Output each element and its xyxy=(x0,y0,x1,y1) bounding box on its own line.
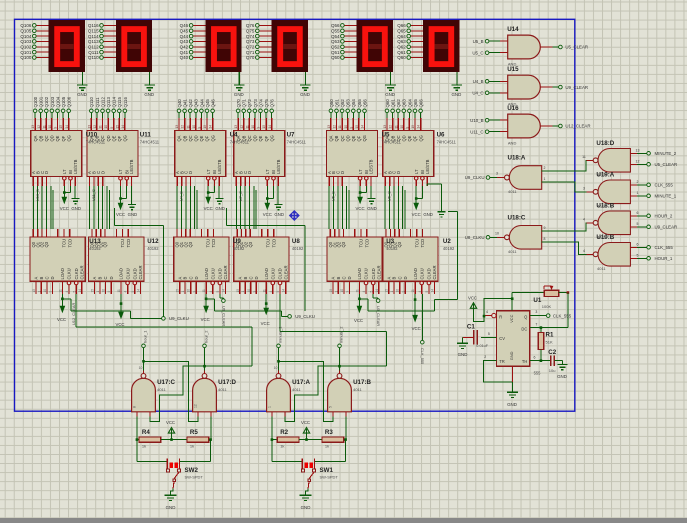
svg-text:U19:B: U19:B xyxy=(596,234,614,241)
svg-text:Q112: Q112 xyxy=(88,45,99,50)
svg-text:10: 10 xyxy=(48,125,52,129)
svg-text:GND: GND xyxy=(128,212,138,217)
svg-text:Q45: Q45 xyxy=(180,29,189,34)
svg-text:U3: U3 xyxy=(386,238,394,245)
svg-text:Q110: Q110 xyxy=(89,97,94,108)
svg-text:14: 14 xyxy=(431,289,435,293)
svg-text:4011: 4011 xyxy=(353,387,362,392)
svg-text:12: 12 xyxy=(389,125,393,129)
svg-text:hour_1: hour_1 xyxy=(143,330,148,343)
terminal U11_C xyxy=(470,129,507,134)
svg-text:10: 10 xyxy=(344,125,348,129)
svg-text:9: 9 xyxy=(406,127,410,129)
output pin U18:D xyxy=(582,155,593,161)
svg-text:Q40: Q40 xyxy=(177,99,182,108)
svg-text:DC: DC xyxy=(521,326,527,331)
svg-text:U4_B: U4_B xyxy=(179,191,184,201)
wire bus U13 to terminal U9_CLKU xyxy=(62,299,161,319)
svg-text:10: 10 xyxy=(247,289,251,293)
svg-text:15: 15 xyxy=(32,289,36,293)
svg-text:12: 12 xyxy=(193,404,197,408)
svg-text:15: 15 xyxy=(91,289,95,293)
svg-text:GND: GND xyxy=(507,402,517,407)
svg-text:GND: GND xyxy=(166,505,176,510)
svg-text:Q114: Q114 xyxy=(88,34,99,39)
svg-text:74HC4511: 74HC4511 xyxy=(287,139,307,144)
wire U19:A output to U18:A input xyxy=(542,182,587,192)
svg-text:40192: 40192 xyxy=(89,246,101,251)
svg-text:CV: CV xyxy=(499,336,505,341)
svg-text:TCD: TCD xyxy=(126,239,131,248)
svg-text:Q72: Q72 xyxy=(246,45,255,50)
svg-text:Q111: Q111 xyxy=(95,97,100,108)
7-segment display digit 1 xyxy=(49,20,85,72)
svg-text:8: 8 xyxy=(544,237,546,241)
counter U2 40192 xyxy=(383,229,438,294)
switch SW1 SW-SPDT xyxy=(272,440,346,489)
svg-text:Q113: Q113 xyxy=(88,39,99,44)
svg-text:VCC: VCC xyxy=(60,206,69,211)
svg-text:LT: LT xyxy=(118,169,123,174)
svg-text:CLEAR: CLEAR xyxy=(377,266,382,280)
wire TR pin 2 loop xyxy=(484,355,513,382)
svg-text:U18:B: U18:B xyxy=(596,202,614,209)
input terminal CLK_555 xyxy=(630,180,673,188)
svg-text:C1: C1 xyxy=(467,323,475,330)
label U12 xyxy=(147,238,159,251)
svg-text:CLKU: CLKU xyxy=(125,268,130,279)
svg-text:4: 4 xyxy=(583,217,585,221)
svg-text:VCC: VCC xyxy=(468,296,477,301)
svg-text:5: 5 xyxy=(637,222,639,226)
svg-text:VCC: VCC xyxy=(354,318,363,323)
svg-text:12: 12 xyxy=(240,125,244,129)
svg-text:14: 14 xyxy=(121,125,125,129)
svg-text:C: C xyxy=(397,276,402,279)
svg-text:11: 11 xyxy=(202,289,206,293)
terminal hour_2 xyxy=(203,330,209,348)
svg-text:4: 4 xyxy=(209,291,213,293)
nand gate U17:B 4011 xyxy=(328,371,372,417)
svg-text:Q56: Q56 xyxy=(331,23,340,28)
counter U12 40192 xyxy=(89,229,144,294)
svg-text:Q42: Q42 xyxy=(180,45,189,50)
svg-text:U12: U12 xyxy=(147,238,159,245)
svg-text:Q46: Q46 xyxy=(211,99,216,108)
svg-text:LOAD: LOAD xyxy=(60,268,65,279)
svg-text:Q71: Q71 xyxy=(242,99,247,108)
svg-text:Q114: Q114 xyxy=(112,97,117,108)
power rails VCC/GND for U6 xyxy=(412,184,433,217)
terminal U10_B xyxy=(470,118,508,123)
svg-text:U5_CLEAR: U5_CLEAR xyxy=(565,45,588,50)
decoder U6 74HC4511 xyxy=(383,99,434,186)
7-segment display digit 6 xyxy=(423,20,459,72)
svg-text:U18:A: U18:A xyxy=(508,155,526,162)
svg-text:U9: U9 xyxy=(233,238,241,245)
svg-text:Q115: Q115 xyxy=(117,97,122,108)
svg-text:TCD: TCD xyxy=(420,239,425,248)
svg-text:LOAD: LOAD xyxy=(413,268,418,279)
svg-text:12: 12 xyxy=(181,125,185,129)
svg-text:14: 14 xyxy=(375,289,379,293)
label U2 xyxy=(443,238,455,251)
svg-text:GND: GND xyxy=(557,374,567,379)
svg-text:LE/STB: LE/STB xyxy=(276,159,281,174)
svg-text:Q55: Q55 xyxy=(357,99,362,108)
svg-text:TCD: TCD xyxy=(211,239,216,248)
svg-text:QG: QG xyxy=(362,135,367,141)
svg-text:2: 2 xyxy=(637,180,639,184)
svg-text:Q100: Q100 xyxy=(33,96,38,107)
svg-text:10u: 10u xyxy=(549,368,556,373)
nand gate U19:B 4011 xyxy=(593,234,630,271)
wire bus to U17:D input xyxy=(76,327,252,366)
svg-text:U16: U16 xyxy=(507,105,519,112)
svg-text:Q53: Q53 xyxy=(331,39,340,44)
ground below display 3 xyxy=(234,72,245,97)
svg-text:11: 11 xyxy=(356,289,360,293)
svg-text:14: 14 xyxy=(361,125,365,129)
svg-text:9: 9 xyxy=(252,291,256,293)
terminal hour_1 xyxy=(142,330,148,348)
svg-text:QF: QF xyxy=(61,135,66,141)
svg-text:U11_C: U11_C xyxy=(91,189,96,201)
svg-text:74HC4511: 74HC4511 xyxy=(86,139,106,144)
svg-text:Q64: Q64 xyxy=(397,34,406,39)
wire U17:B output cross-couple xyxy=(285,348,341,422)
svg-text:D: D xyxy=(194,276,199,279)
svg-text:GND: GND xyxy=(274,212,284,217)
svg-text:Q40: Q40 xyxy=(180,55,189,60)
svg-text:4011: 4011 xyxy=(508,189,517,194)
svg-text:0.01uF: 0.01uF xyxy=(476,344,489,348)
svg-text:14: 14 xyxy=(65,125,69,129)
svg-text:U5_B: U5_B xyxy=(473,39,484,44)
svg-text:QE: QE xyxy=(55,135,60,141)
svg-text:CLKD: CLKD xyxy=(371,268,376,279)
label U4 xyxy=(230,132,250,145)
svg-text:QG: QG xyxy=(123,135,128,141)
svg-text:3: 3 xyxy=(496,172,498,176)
svg-text:9: 9 xyxy=(257,127,261,129)
svg-text:U6: U6 xyxy=(437,132,445,139)
terminal U9_CLEAR xyxy=(220,294,226,326)
svg-text:U4_B: U4_B xyxy=(473,79,484,84)
svg-text:11: 11 xyxy=(394,125,398,129)
svg-text:GND: GND xyxy=(452,92,462,97)
svg-text:GND: GND xyxy=(458,352,468,357)
svg-text:15: 15 xyxy=(329,289,333,293)
svg-text:11: 11 xyxy=(117,289,121,293)
svg-text:GND: GND xyxy=(423,212,433,217)
svg-text:U7: U7 xyxy=(287,132,295,139)
resistor R3 1k xyxy=(322,416,347,448)
decoder U5 74HC4511 xyxy=(327,99,378,186)
capacitor C2 10u xyxy=(548,349,562,373)
svg-text:14: 14 xyxy=(209,125,213,129)
svg-text:Q56: Q56 xyxy=(362,99,367,108)
svg-text:9: 9 xyxy=(346,291,350,293)
svg-text:1: 1 xyxy=(181,291,185,293)
svg-text:Q44: Q44 xyxy=(180,34,189,39)
svg-text:Q76: Q76 xyxy=(246,23,255,28)
svg-text:U9_CLEAR: U9_CLEAR xyxy=(655,225,678,230)
svg-text:B: B xyxy=(392,277,397,280)
svg-text:VCC: VCC xyxy=(263,212,272,217)
svg-text:Q41: Q41 xyxy=(183,99,188,108)
terminal minute_1 xyxy=(277,326,283,348)
svg-text:Q61: Q61 xyxy=(397,50,406,55)
svg-text:QG: QG xyxy=(210,135,215,141)
capacitor C1 0.01uF xyxy=(463,323,497,347)
svg-text:C2: C2 xyxy=(548,349,556,356)
svg-text:15: 15 xyxy=(203,125,207,129)
input terminal U5_CLEAR xyxy=(630,160,677,168)
svg-text:9: 9 xyxy=(349,127,353,129)
svg-text:5: 5 xyxy=(328,406,332,408)
svg-text:14: 14 xyxy=(137,289,141,293)
svg-text:4: 4 xyxy=(124,291,128,293)
svg-text:Q52: Q52 xyxy=(340,99,345,108)
svg-text:4: 4 xyxy=(362,291,366,293)
label U7 xyxy=(287,132,307,145)
svg-text:U9_CLEAR: U9_CLEAR xyxy=(221,306,226,326)
svg-text:U6_C: U6_C xyxy=(387,191,392,201)
svg-text:LT: LT xyxy=(62,169,67,174)
label U3 xyxy=(386,238,398,251)
svg-text:100K: 100K xyxy=(542,304,552,309)
svg-text:VCC: VCC xyxy=(201,317,210,322)
svg-text:Q41: Q41 xyxy=(180,50,189,55)
svg-text:TCD: TCD xyxy=(271,239,276,248)
svg-text:Q50: Q50 xyxy=(331,55,340,60)
svg-text:1k: 1k xyxy=(190,444,194,449)
svg-text:D: D xyxy=(347,276,352,279)
svg-text:CLKU: CLKU xyxy=(271,268,276,279)
svg-text:1k: 1k xyxy=(280,444,284,449)
svg-text:CLKU: CLKU xyxy=(419,268,424,279)
svg-text:D: D xyxy=(403,276,408,279)
svg-text:D: D xyxy=(254,276,259,279)
svg-text:Q106: Q106 xyxy=(20,23,32,28)
wire U3 LOAD to VCC xyxy=(354,294,363,323)
svg-text:15: 15 xyxy=(59,125,63,129)
wire bus BCD from counter to U6 xyxy=(385,186,405,229)
svg-text:1: 1 xyxy=(334,291,338,293)
terminal U9_CLEAR xyxy=(540,85,588,90)
svg-text:4: 4 xyxy=(65,291,69,293)
svg-text:Q66: Q66 xyxy=(419,99,424,108)
svg-text:Q102: Q102 xyxy=(44,96,49,107)
display 3 input terminals Q40-Q46 xyxy=(180,23,206,60)
svg-text:GND: GND xyxy=(234,92,244,97)
svg-text:14: 14 xyxy=(417,125,421,129)
counter U9 40192 xyxy=(174,229,229,294)
svg-text:TCU: TCU xyxy=(120,239,125,248)
terminal U3_CLKU xyxy=(288,314,315,319)
svg-text:12: 12 xyxy=(93,125,97,129)
svg-text:10: 10 xyxy=(139,366,143,370)
svg-text:Q3: Q3 xyxy=(188,241,193,247)
svg-text:TCD: TCD xyxy=(365,239,370,248)
svg-text:15: 15 xyxy=(385,289,389,293)
svg-text:Q76: Q76 xyxy=(270,99,275,108)
svg-text:TCU: TCU xyxy=(265,239,270,248)
svg-text:Q104: Q104 xyxy=(55,96,60,107)
svg-text:14: 14 xyxy=(78,289,82,293)
svg-text:9: 9 xyxy=(54,127,58,129)
svg-text:10: 10 xyxy=(192,125,196,129)
svg-text:9: 9 xyxy=(110,127,114,129)
decoder U11 74HC4511 xyxy=(87,97,138,186)
svg-text:10: 10 xyxy=(396,289,400,293)
svg-text:11: 11 xyxy=(411,289,415,293)
wire bus U8 to U17:B input xyxy=(280,294,387,366)
svg-text:U5: U5 xyxy=(382,132,390,139)
svg-text:LT: LT xyxy=(358,169,363,174)
svg-text:SW1: SW1 xyxy=(320,467,334,474)
svg-text:U10_B: U10_B xyxy=(470,118,483,123)
label U13 xyxy=(89,238,101,251)
svg-text:VCC: VCC xyxy=(509,314,514,322)
svg-text:CLK_555: CLK_555 xyxy=(420,348,425,364)
svg-text:C: C xyxy=(342,276,347,279)
svg-text:R2: R2 xyxy=(280,429,288,436)
svg-text:Q3: Q3 xyxy=(341,241,346,247)
svg-text:555: 555 xyxy=(534,371,542,376)
svg-text:CLKD: CLKD xyxy=(74,268,79,279)
display 2 input terminals Q110-Q116 xyxy=(88,23,116,60)
svg-text:U17:B: U17:B xyxy=(353,379,371,386)
svg-text:Q102: Q102 xyxy=(20,45,32,50)
power VCC at R4/R5 xyxy=(161,420,187,441)
ground below display 2 xyxy=(144,72,155,97)
svg-text:R5: R5 xyxy=(190,429,198,436)
terminal U5_C xyxy=(472,50,507,55)
svg-text:CLK_555: CLK_555 xyxy=(655,245,674,250)
svg-text:Q101: Q101 xyxy=(39,96,44,107)
svg-text:U17:A: U17:A xyxy=(292,379,310,386)
svg-text:GND: GND xyxy=(509,351,514,360)
svg-text:Q63: Q63 xyxy=(397,39,406,44)
output pin U19:B xyxy=(583,249,593,255)
svg-text:Q103: Q103 xyxy=(20,39,32,44)
svg-text:QA: QA xyxy=(329,135,334,141)
nand gate U18:A 4011 xyxy=(505,155,542,195)
svg-text:Q116: Q116 xyxy=(88,23,99,28)
svg-text:Q105: Q105 xyxy=(61,96,66,107)
svg-text:15: 15 xyxy=(262,125,266,129)
svg-text:2: 2 xyxy=(484,355,486,359)
svg-text:Q3: Q3 xyxy=(248,241,253,247)
svg-text:10: 10 xyxy=(274,366,278,370)
svg-text:10: 10 xyxy=(102,289,106,293)
power rails VCC/GND for U10 xyxy=(60,186,81,211)
display 1 input terminals Q100-Q106 xyxy=(20,23,48,60)
svg-text:13: 13 xyxy=(234,125,238,129)
svg-text:74HC4511: 74HC4511 xyxy=(230,139,250,144)
power rails VCC/GND for U7 xyxy=(263,186,284,217)
svg-text:5: 5 xyxy=(131,291,135,293)
svg-text:40192: 40192 xyxy=(233,246,245,251)
svg-text:5: 5 xyxy=(425,291,429,293)
svg-text:13: 13 xyxy=(327,125,331,129)
svg-text:LT: LT xyxy=(414,169,419,174)
decoder U10 74HC4511 xyxy=(31,96,82,186)
label U8 xyxy=(292,238,304,251)
svg-text:CLEAR: CLEAR xyxy=(138,266,143,280)
svg-text:13: 13 xyxy=(31,125,35,129)
svg-text:U18:D: U18:D xyxy=(596,140,614,147)
svg-text:4011: 4011 xyxy=(292,387,301,392)
svg-text:3: 3 xyxy=(583,186,585,190)
svg-text:SW2: SW2 xyxy=(185,467,199,474)
svg-text:Q75: Q75 xyxy=(264,99,269,108)
svg-text:11: 11 xyxy=(42,125,46,129)
svg-text:Q70: Q70 xyxy=(246,55,255,60)
svg-text:R3: R3 xyxy=(325,429,333,436)
svg-text:QF: QF xyxy=(264,135,269,141)
svg-text:U13: U13 xyxy=(89,238,101,245)
wire U9 LOAD to VCC xyxy=(201,294,210,322)
svg-text:5: 5 xyxy=(369,291,373,293)
svg-text:Q64: Q64 xyxy=(407,99,412,108)
svg-text:U3_CLEAR: U3_CLEAR xyxy=(376,306,381,326)
svg-text:Q62: Q62 xyxy=(396,99,401,108)
wire bus BCD from counter to U4 xyxy=(177,186,197,229)
output pin U19:A xyxy=(583,186,593,192)
svg-text:GND: GND xyxy=(144,92,154,97)
svg-text:74HC4511: 74HC4511 xyxy=(382,139,402,144)
svg-text:QB: QB xyxy=(334,135,339,141)
svg-text:QD: QD xyxy=(402,135,407,141)
svg-text:9: 9 xyxy=(401,291,405,293)
decoder U4 74HC4511 xyxy=(175,99,226,186)
svg-text:R1: R1 xyxy=(546,332,554,339)
svg-text:B: B xyxy=(336,277,341,280)
svg-text:GND: GND xyxy=(301,505,311,510)
svg-text:10: 10 xyxy=(43,289,47,293)
wire bus BCD from counter to U11 xyxy=(90,186,110,229)
wire from U11 LE to counter clock bus xyxy=(115,208,164,316)
svg-text:13: 13 xyxy=(87,125,91,129)
svg-text:Q74: Q74 xyxy=(246,34,255,39)
power rails VCC/GND for U5 xyxy=(356,186,377,211)
svg-text:Q101: Q101 xyxy=(20,50,32,55)
svg-text:U9_CLEAR: U9_CLEAR xyxy=(565,85,588,90)
svg-text:Q75: Q75 xyxy=(246,29,255,34)
svg-text:15: 15 xyxy=(236,289,240,293)
counter U8 40192 xyxy=(234,229,289,294)
svg-text:LE/STB: LE/STB xyxy=(217,159,222,174)
counter U13 40192 xyxy=(30,229,85,294)
svg-text:hour_2: hour_2 xyxy=(204,330,209,343)
svg-text:9: 9 xyxy=(198,127,202,129)
svg-text:10: 10 xyxy=(187,289,191,293)
svg-text:U12_CLEAR: U12_CLEAR xyxy=(565,124,590,129)
7-segment display digit 2 xyxy=(116,20,152,72)
svg-text:U9_CLKU: U9_CLKU xyxy=(169,316,189,321)
svg-text:74HC4511: 74HC4511 xyxy=(140,139,160,144)
svg-text:VCC: VCC xyxy=(261,321,270,326)
display 4 input terminals Q70-Q76 xyxy=(246,23,272,60)
and gate U14 xyxy=(507,26,540,67)
svg-text:Q73: Q73 xyxy=(246,39,255,44)
svg-text:VCC: VCC xyxy=(412,326,421,331)
svg-text:40192: 40192 xyxy=(443,246,455,251)
svg-text:U5_C: U5_C xyxy=(472,50,483,55)
